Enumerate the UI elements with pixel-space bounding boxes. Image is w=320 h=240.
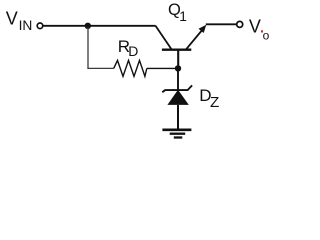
svg-text:Z: Z	[210, 94, 219, 111]
transistor Q1 base lead	[177, 50, 179, 68]
zener DZ anode lead	[177, 105, 179, 129]
red mark	[261, 30, 263, 32]
wire input	[43, 25, 155, 27]
ground bar 3	[174, 136, 183, 138]
svg-text:IN: IN	[19, 18, 33, 33]
wire output	[206, 23, 236, 25]
output terminal	[237, 21, 243, 27]
svg-text:o: o	[263, 29, 270, 43]
node dot	[175, 65, 181, 71]
wire node to zener	[177, 68, 179, 90]
transistor Q1 collector	[156, 26, 172, 49]
wire junction to resistor	[88, 27, 114, 68]
input terminal	[37, 23, 43, 29]
junction dot	[85, 23, 91, 29]
ground bar 1	[162, 129, 191, 132]
svg-text:D: D	[128, 43, 138, 59]
transistor Q1 base bar	[162, 49, 191, 51]
svg-text:1: 1	[179, 9, 187, 24]
zener DZ cathode bar	[162, 85, 192, 92]
wire resistor to node	[147, 67, 178, 69]
svg-text:V: V	[6, 9, 18, 29]
ground bar 2	[170, 133, 186, 135]
transistor Q1 emitter	[186, 30, 202, 50]
transistor Q1 emitter arrowhead	[199, 25, 207, 33]
svg-text:V: V	[249, 17, 261, 37]
resistor RD	[114, 60, 147, 76]
zener DZ triangle	[167, 90, 188, 105]
